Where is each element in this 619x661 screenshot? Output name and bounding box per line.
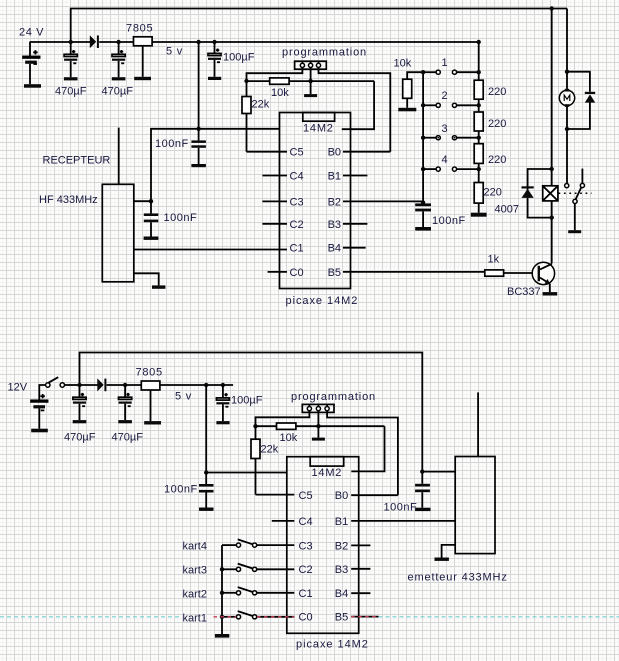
svg-text:C5: C5	[299, 490, 313, 502]
wire diode branch bottom	[567, 102, 590, 129]
pin B0 (U1)	[328, 147, 391, 159]
pin B5 (U3)	[335, 612, 379, 624]
wire J2 pin3 to B0	[327, 411, 398, 496]
junction	[565, 127, 569, 131]
resistor R2 220	[474, 112, 483, 144]
wire J1 pin2 to ground	[310, 68, 312, 95]
IC U1 picaxe 14M2	[280, 113, 351, 289]
antenna wire (receiver)	[118, 128, 120, 185]
wire kart1 red overlay	[214, 616, 379, 618]
pin B1 (U1)	[328, 171, 368, 183]
pin B5 (U1)	[328, 267, 485, 279]
svg-text:14M2: 14M2	[303, 123, 334, 135]
wire to motor	[566, 72, 568, 91]
capacitor C10 100nF	[199, 473, 214, 508]
ground (C8)	[118, 420, 132, 423]
switch SW5 power	[46, 377, 80, 387]
wire 5v drop to logic	[198, 42, 200, 129]
svg-text:22k: 22k	[261, 444, 279, 456]
ground (C2)	[112, 77, 126, 80]
wire motor to contact	[566, 106, 568, 184]
svg-text:2: 2	[442, 90, 448, 102]
svg-text:100nF: 100nF	[164, 484, 198, 496]
diode D3	[585, 92, 595, 103]
capacitor C6 100nF	[415, 203, 431, 227]
svg-text:5 v: 5 v	[175, 391, 192, 403]
svg-text:10k: 10k	[394, 58, 412, 70]
svg-text:24 V: 24 V	[19, 27, 44, 39]
resistor R1 220	[474, 42, 483, 112]
svg-text:kart4: kart4	[183, 541, 207, 553]
wire serial to chip	[342, 81, 374, 129]
svg-text:3: 3	[442, 123, 448, 135]
svg-text:100nF: 100nF	[384, 502, 418, 514]
ground (receiver)	[152, 285, 165, 288]
battery BT1 24V	[23, 42, 40, 84]
wire switch bus	[422, 72, 424, 202]
junction	[196, 40, 200, 44]
svg-text:470µF: 470µF	[102, 86, 134, 98]
junction	[308, 79, 312, 83]
svg-text:picaxe 14M2: picaxe 14M2	[286, 295, 359, 307]
ground (C4)	[191, 164, 206, 167]
resistor R7 10k pull-down	[403, 72, 423, 108]
svg-text:220: 220	[488, 86, 506, 98]
junction	[477, 167, 481, 171]
svg-text:C0: C0	[299, 612, 313, 624]
IC U3 picaxe 14M2	[287, 457, 359, 634]
connector J1 programmation	[295, 61, 327, 69]
ground (contact)	[568, 230, 581, 233]
svg-text:220: 220	[484, 187, 502, 199]
wire top rail 2	[80, 353, 423, 472]
svg-text:B2: B2	[328, 196, 341, 208]
junction	[550, 167, 554, 171]
svg-text:C1: C1	[290, 243, 304, 255]
switch SW4	[423, 167, 479, 171]
svg-text:100nF: 100nF	[432, 215, 466, 227]
guide line cyan right	[379, 616, 619, 618]
capacitor C11 100nF	[415, 472, 430, 508]
ground (kart bus)	[215, 634, 229, 638]
wire 5v rail	[152, 41, 479, 43]
svg-text:470µF: 470µF	[55, 86, 87, 98]
svg-text:B4: B4	[328, 243, 341, 255]
svg-text:picaxe 14M2: picaxe 14M2	[296, 639, 369, 651]
svg-text:B0: B0	[328, 147, 341, 159]
svg-text:7805: 7805	[136, 367, 163, 379]
svg-text:kart1: kart1	[183, 613, 207, 625]
svg-text:470µF: 470µF	[112, 432, 144, 444]
svg-text:B1: B1	[335, 516, 348, 528]
pin B3 (U3)	[335, 564, 371, 576]
svg-text:C4: C4	[299, 516, 313, 528]
wire to top rail	[71, 9, 567, 43]
ground (battery BT1)	[24, 84, 41, 88]
wire J1 pin1 to serial-in net	[247, 68, 303, 82]
junction	[244, 79, 248, 83]
svg-text:10k: 10k	[280, 432, 298, 444]
wire J2 pin1 to serial-in	[256, 411, 310, 427]
junction	[220, 615, 224, 619]
capacitor C7 470uF	[73, 385, 86, 420]
emitter module 433MHz	[455, 457, 495, 554]
svg-text:B5: B5	[328, 267, 341, 279]
svg-text:BC337: BC337	[507, 286, 541, 298]
wire relay feed	[551, 9, 553, 187]
svg-text:470µF: 470µF	[64, 432, 96, 444]
diode D2 4007	[522, 186, 534, 198]
junction	[221, 383, 225, 387]
junction	[565, 70, 569, 74]
wire diode to 7805	[99, 41, 133, 43]
wire receiver out to C-net	[134, 200, 151, 202]
junction	[477, 136, 481, 140]
pin C3 (U1)	[262, 196, 303, 208]
wire kart bus	[221, 545, 223, 634]
diode D4	[97, 378, 106, 391]
svg-text:B3: B3	[328, 219, 341, 231]
wire serial net	[247, 80, 375, 82]
ground (C6)	[415, 227, 431, 231]
ground (C7)	[73, 420, 87, 423]
svg-text:B2: B2	[335, 540, 348, 552]
wire motor branch	[567, 9, 590, 92]
wire coil to collector	[551, 201, 553, 264]
ground (C11)	[415, 508, 430, 511]
wire receiver data to C1 pin	[134, 249, 287, 251]
wire J1 pin3 to B0	[319, 68, 391, 152]
wire supply line to chip	[151, 129, 280, 201]
svg-text:C4: C4	[290, 171, 304, 183]
pin C4 (U3)	[272, 516, 313, 528]
receiver module HF 433MHz	[102, 184, 134, 281]
svg-text:C3: C3	[299, 540, 313, 552]
wire 22k to C5 pin 2	[256, 494, 295, 496]
resistor R9 10k	[277, 423, 296, 429]
relay contact K1	[565, 169, 585, 231]
switch SW6 kart4	[222, 539, 294, 547]
resistor R5 10k	[270, 78, 289, 84]
svg-text:220: 220	[488, 154, 506, 166]
capacitor C2 470uF	[112, 42, 125, 77]
svg-text:4: 4	[442, 154, 448, 166]
svg-text:B0: B0	[335, 490, 348, 502]
svg-text:B3: B3	[335, 564, 348, 576]
svg-text:B1: B1	[328, 171, 341, 183]
ground (C3)	[208, 77, 221, 80]
capacitor C5 100nF	[144, 201, 159, 236]
svg-text:HF 433MHz: HF 433MHz	[39, 194, 98, 206]
dotted actuation link	[559, 192, 592, 194]
wire serial to chip 2	[351, 426, 384, 471]
svg-text:22k: 22k	[252, 99, 270, 111]
junction	[77, 383, 81, 387]
capacitor C8 470uF	[119, 385, 132, 420]
svg-text:C2: C2	[299, 564, 313, 576]
switch SW9 kart1	[222, 611, 294, 619]
capacitor C1 470uF	[64, 42, 77, 77]
junction	[196, 127, 200, 131]
pin B4 (U3)	[335, 588, 371, 600]
svg-text:C5: C5	[290, 147, 304, 159]
wire to emitter module	[422, 471, 455, 473]
svg-text:5 v: 5 v	[166, 46, 183, 58]
relay K1 coil	[543, 186, 558, 201]
svg-text:100nF: 100nF	[164, 212, 198, 224]
junction	[220, 591, 224, 595]
pin C2 (U1)	[262, 219, 303, 231]
pin C0 (U1)	[268, 267, 304, 279]
wire 24V rail	[30, 41, 91, 43]
svg-text:B4: B4	[335, 588, 348, 600]
wire J2 pin2 to ground	[317, 411, 319, 438]
pin B2 (U3)	[335, 540, 371, 552]
guide line cyan left	[0, 616, 180, 618]
junction	[420, 469, 424, 473]
wire serial net 2	[256, 425, 385, 427]
svg-text:220: 220	[488, 118, 506, 130]
ground (R7)	[398, 108, 416, 112]
svg-text:100µF: 100µF	[231, 395, 263, 407]
svg-text:C0: C0	[290, 267, 304, 279]
svg-text:C1: C1	[299, 588, 313, 600]
pin B2 (U1)	[328, 196, 424, 208]
junction	[421, 136, 425, 140]
svg-text:kart3: kart3	[183, 565, 207, 577]
svg-text:1: 1	[442, 57, 448, 69]
junction	[550, 6, 554, 10]
resistor R6 22k	[242, 81, 251, 152]
antenna wire (emitter)	[477, 392, 479, 456]
pin B3 (U1)	[328, 219, 368, 231]
junction	[477, 70, 481, 74]
junction	[421, 70, 425, 74]
junction	[421, 200, 425, 204]
svg-text:RECEPTEUR: RECEPTEUR	[43, 155, 111, 167]
switch SW3	[423, 136, 479, 140]
ground (Q1 emitter)	[543, 292, 558, 295]
switch SW8 kart2	[222, 587, 294, 595]
capacitor C4 100nF	[191, 129, 206, 164]
junction	[421, 167, 425, 171]
ground (C9)	[216, 421, 229, 424]
ground (J2)	[312, 438, 325, 441]
junction	[477, 103, 481, 107]
svg-text:B5: B5	[335, 612, 348, 624]
resistor R3 220	[474, 144, 483, 183]
svg-text:programmation: programmation	[282, 47, 367, 59]
wire emitter gnd	[442, 545, 456, 558]
resistor R4 220	[474, 183, 483, 213]
svg-text:programmation: programmation	[291, 391, 376, 403]
wire 5v drop 2	[205, 385, 207, 473]
junction	[212, 40, 216, 44]
transistor Q1 BC337	[532, 262, 554, 292]
svg-text:100µF: 100µF	[223, 52, 255, 64]
diode D1	[90, 35, 99, 48]
junction	[116, 40, 120, 44]
wire rail	[80, 384, 98, 386]
ground (7805)	[134, 77, 151, 80]
junction	[253, 424, 257, 428]
svg-text:14M2: 14M2	[312, 467, 343, 479]
pin C4 (U1)	[262, 171, 303, 183]
junction	[204, 470, 208, 474]
svg-text:1k: 1k	[488, 254, 500, 266]
junction	[550, 215, 554, 219]
wire 22k to C5 pin	[247, 151, 288, 153]
svg-text:100nF: 100nF	[155, 138, 189, 150]
junction	[123, 383, 127, 387]
svg-text:C3: C3	[290, 196, 304, 208]
junction	[477, 40, 481, 44]
ground (emitter)	[435, 558, 449, 561]
svg-text:kart2: kart2	[183, 589, 207, 601]
wire supply line to chip 2	[206, 472, 287, 474]
svg-text:emetteur 433MHz: emetteur 433MHz	[408, 572, 508, 584]
wire 5v rail 2	[160, 384, 233, 386]
resistor R10 22k	[251, 426, 260, 494]
svg-text:10k: 10k	[271, 87, 289, 99]
ground (U4)	[144, 421, 161, 424]
wire flyback branch	[528, 169, 552, 218]
capacitor C3 100uF	[208, 42, 221, 77]
switch SW1	[423, 70, 479, 74]
ground (C10)	[199, 508, 214, 511]
ground (BT2)	[31, 429, 48, 433]
svg-text:7805: 7805	[126, 23, 153, 35]
capacitor C9 100uF	[216, 385, 229, 421]
regulator U4 7805	[141, 381, 160, 421]
svg-text:4007: 4007	[495, 204, 519, 216]
motor M1	[559, 89, 574, 107]
wire receiver gnd	[134, 273, 159, 285]
ground (J1)	[304, 94, 317, 97]
pin B1 (U3)	[335, 516, 455, 528]
ground (C5)	[144, 237, 159, 240]
switch SW7 kart3	[222, 564, 294, 572]
ground (C1)	[64, 77, 78, 80]
junction	[220, 567, 224, 571]
resistor R8 1k	[485, 270, 504, 276]
switch SW2	[423, 103, 479, 107]
pin B4 (U1)	[328, 243, 366, 255]
junction	[149, 199, 153, 203]
svg-text:12V: 12V	[8, 382, 28, 394]
wire base	[504, 272, 533, 274]
junction	[69, 40, 73, 44]
ground (R4)	[471, 213, 487, 217]
regulator U2 7805	[134, 37, 153, 77]
junction	[421, 103, 425, 107]
junction	[316, 424, 320, 428]
connector J2 programmation	[302, 404, 334, 412]
junction	[204, 383, 208, 387]
pin B0 (U3)	[335, 490, 398, 502]
svg-text:C2: C2	[290, 219, 304, 231]
battery BT2 12V	[31, 385, 48, 429]
wire diode to 7805	[107, 384, 142, 386]
